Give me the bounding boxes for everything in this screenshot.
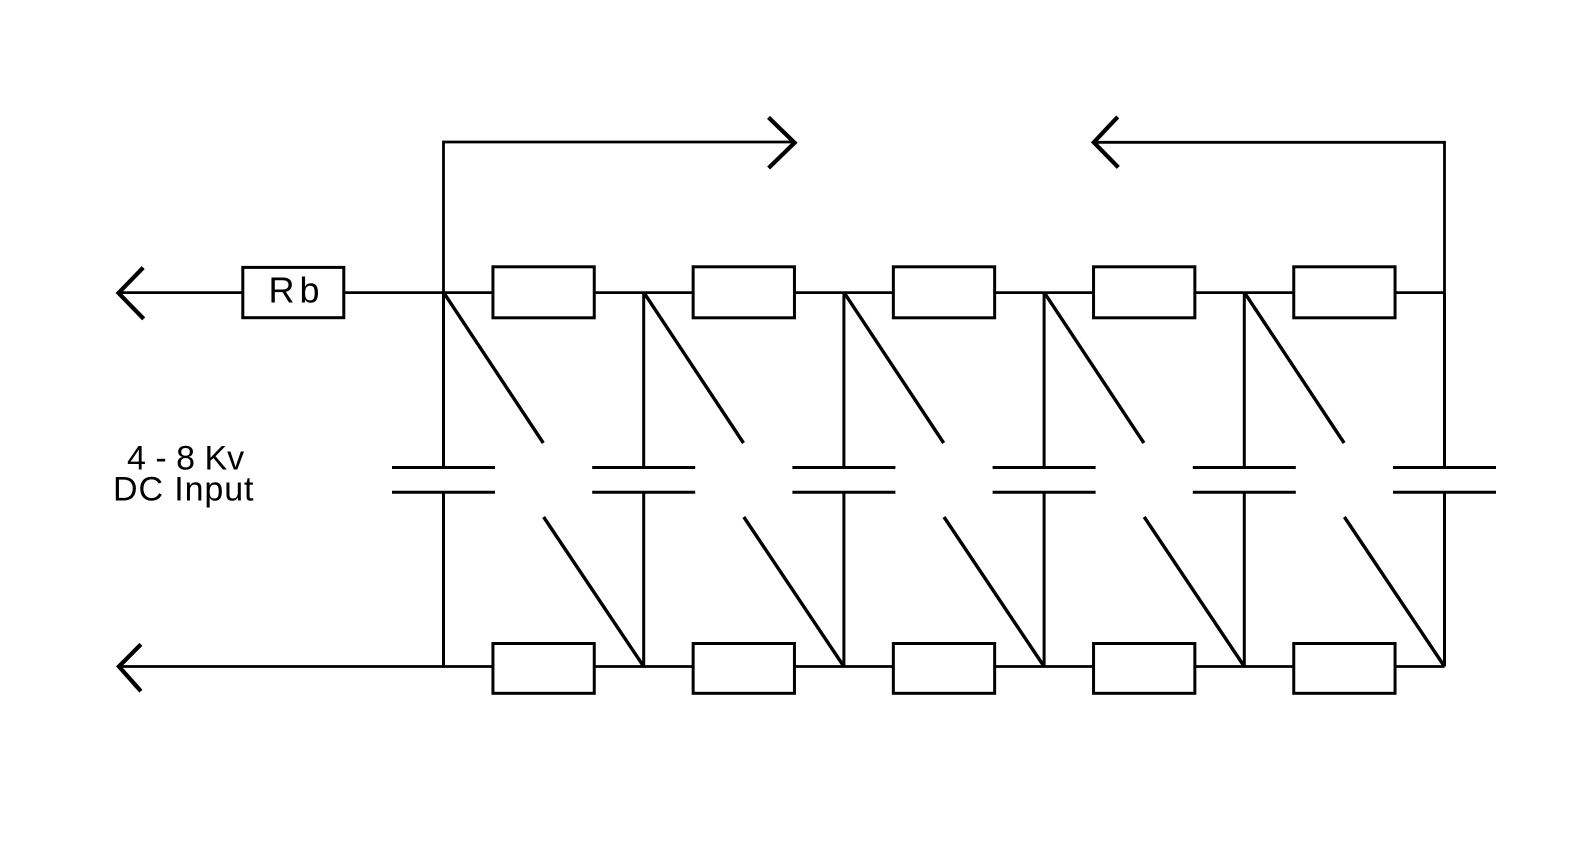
capacitor C6 xyxy=(1393,468,1496,493)
wire: column 2 vertical xyxy=(642,292,645,666)
arrowhead: left output arrow on bottom rail xyxy=(119,644,141,691)
label: 4 - 8 Kv DC Input xyxy=(113,440,254,509)
capacitor C4 xyxy=(993,468,1096,493)
wire: column 5 vertical xyxy=(1243,292,1246,666)
svg-text:DC Input: DC Input xyxy=(113,470,254,508)
resistor R7 (bottom rail, stage 2) xyxy=(693,644,794,694)
spark gap G1 (diagonal pair, stage 1) xyxy=(444,292,644,666)
wire: top feedback loop left (node A up and right to arrow) xyxy=(444,142,794,292)
capacitor C5 xyxy=(1193,468,1296,493)
arrowhead: right-pointing arrow on left top loop xyxy=(769,117,795,168)
spark gap G3 (diagonal pair, stage 3) xyxy=(844,292,1044,666)
spark gap G5 (diagonal pair, stage 5) xyxy=(1244,292,1444,666)
resistor R6 (bottom rail, stage 1) xyxy=(493,644,594,694)
capacitor C2 xyxy=(592,468,695,493)
wire: column 3 vertical xyxy=(842,292,845,666)
resistor R9 (bottom rail, stage 4) xyxy=(1094,644,1195,694)
resistor R8 (bottom rail, stage 3) xyxy=(893,644,994,694)
wire: top feedback loop right (arrow to right column down to rail) xyxy=(1096,142,1445,292)
capacitor C1 xyxy=(392,468,495,493)
resistor R3 (top rail, stage 3) xyxy=(893,267,994,318)
resistor R2 (top rail, stage 2) xyxy=(693,267,794,318)
spark gap G2 (diagonal pair, stage 2) xyxy=(644,292,844,666)
capacitor C3 xyxy=(792,468,895,493)
arrowhead: left output arrow on middle rail xyxy=(119,268,144,319)
resistor R4 (top rail, stage 4) xyxy=(1094,267,1195,318)
spark gap G4 (diagonal pair, stage 4) xyxy=(1044,292,1244,666)
wire: middle horizontal rail (output left to right column) xyxy=(120,291,1445,294)
resistor Rb xyxy=(243,267,344,317)
resistor R10 (bottom rail, stage 5) xyxy=(1294,644,1395,694)
wire: bottom horizontal rail xyxy=(120,665,1445,668)
wire: column 1 vertical (rail to capacitor to bottom rail) xyxy=(442,292,445,666)
resistor R5 (top rail, stage 5) xyxy=(1294,267,1395,318)
svg-text:Rb: Rb xyxy=(269,270,325,311)
wire: column 6 vertical xyxy=(1443,292,1446,666)
wire: column 4 vertical xyxy=(1043,292,1046,666)
resistor R1 (top rail, stage 1) xyxy=(493,267,594,318)
arrowhead: left-pointing arrow on right top loop xyxy=(1094,117,1119,167)
